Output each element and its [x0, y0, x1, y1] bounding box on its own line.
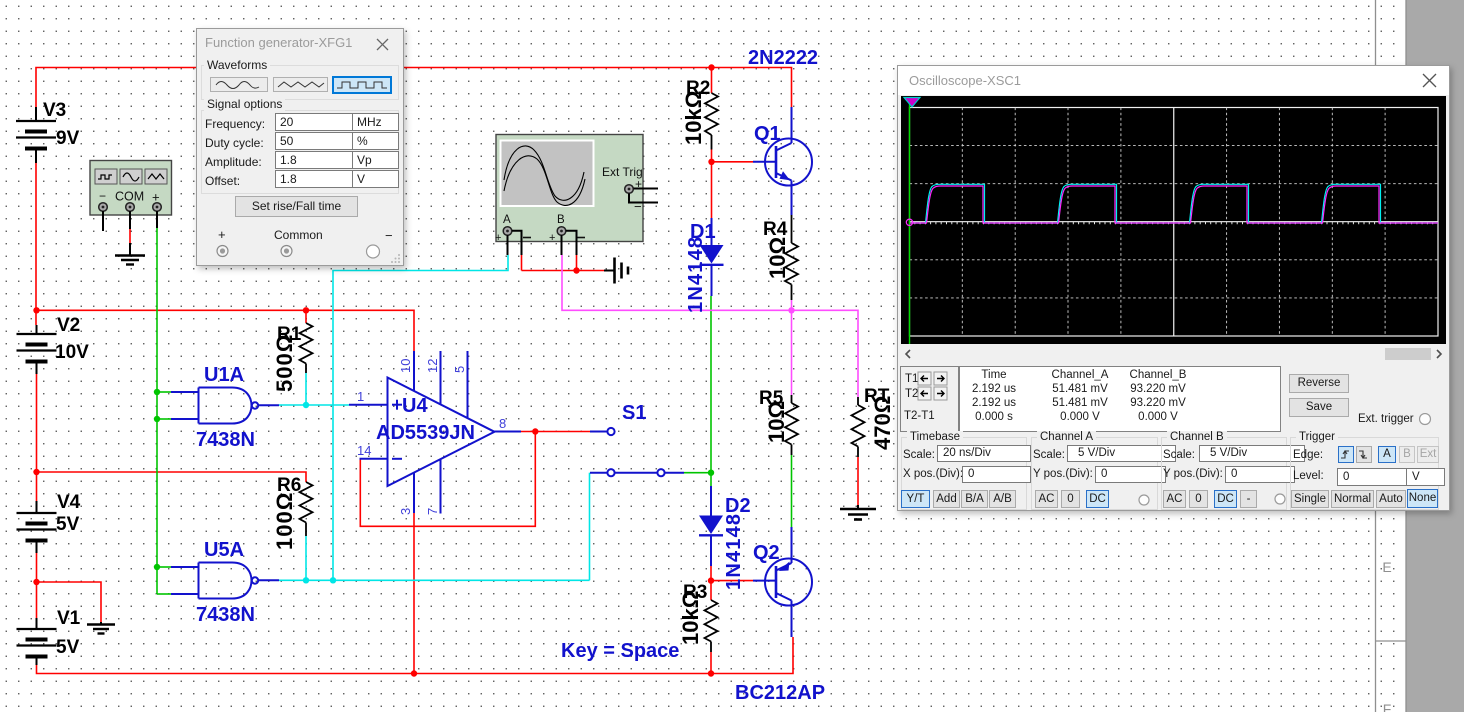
- resistor RT: [852, 397, 865, 457]
- diode D1: [700, 218, 724, 296]
- wire: XFG + output green vertical: [156, 228, 158, 594]
- wire: scope minus terminals to ground: [522, 270, 605, 272]
- cursor readout panel: [900, 366, 959, 432]
- sine trace 2: [504, 156, 585, 206]
- Timebase group: [901, 437, 1027, 510]
- junction: V2/V4: [33, 469, 39, 475]
- minus mark: [392, 458, 402, 460]
- svg-text:500Ω: 500Ω: [272, 334, 297, 392]
- svg-text:470Ω: 470Ω: [870, 396, 895, 450]
- nand gate U1A: [171, 388, 279, 424]
- wire: R2 top lead red: [711, 68, 713, 94]
- junction: scope B- ground: [573, 267, 579, 273]
- junction: R2/D1/Q1 base: [708, 159, 714, 165]
- svg-text:14: 14: [357, 443, 371, 458]
- A minus stub: [512, 231, 522, 255]
- wire: top supply rail from V3 to Q1 collector: [36, 68, 792, 108]
- svg-text:V3: V3: [43, 100, 66, 121]
- svg-text:5V: 5V: [56, 514, 80, 535]
- battery V3: [16, 107, 56, 163]
- triangle icon: [148, 174, 164, 179]
- wire: V1 bottom to bottom rail: [37, 637, 794, 674]
- wire: scope A to U5A output net: [333, 255, 508, 580]
- svg-text:7438N: 7438N: [196, 429, 255, 451]
- wire: base node to D1 anode: [711, 162, 713, 218]
- svg-text:1N4148: 1N4148: [685, 236, 707, 313]
- svg-text:10Ω: 10Ω: [765, 237, 790, 279]
- junction: R4/R5 magenta node: [788, 307, 794, 313]
- svg-text:−: −: [99, 189, 106, 203]
- wire: scope B to R4/R5/RT net: [562, 255, 858, 397]
- svg-text:10kΩ: 10kΩ: [678, 591, 703, 645]
- workspace gray area right of sheet: [1406, 0, 1464, 712]
- wire: base node to R3 top: [710, 581, 712, 600]
- solid center axes: [1173, 108, 1175, 337]
- wire: V3 to V2 left column: [35, 163, 37, 325]
- wire: Q2 base wire: [711, 580, 753, 582]
- wire: V2 rail to U4 pin10: [36, 310, 414, 351]
- svg-text:U5A: U5A: [204, 539, 244, 561]
- XFG COM stub: [129, 211, 131, 229]
- graticule frame: [910, 108, 1439, 337]
- junction: R1 bottom / U1A out: [303, 402, 309, 408]
- cursor axis marker: [906, 219, 912, 225]
- wire: R2 bottom to base node: [711, 150, 713, 163]
- XFG plus stub: [156, 211, 158, 228]
- svg-text:12: 12: [425, 359, 440, 373]
- sheet border column lines: [1376, 0, 1407, 712]
- svg-text:B: B: [557, 214, 565, 226]
- channel B trace (magenta): [909, 186, 1438, 223]
- wire: node to R5 top: [791, 310, 793, 395]
- function generator dialog XFG1: [196, 28, 404, 266]
- svg-text:8: 8: [499, 416, 506, 431]
- ext trig stubs: [629, 189, 658, 203]
- svg-text:AD5539JN: AD5539JN: [376, 422, 475, 444]
- ground: scope minus (rotated): [604, 258, 628, 284]
- transistor Q1 (NPN 2N2222): [753, 107, 812, 215]
- wire: D2 cathode to Q2 base node: [710, 566, 712, 581]
- ground: RT bottom: [840, 505, 876, 520]
- B minus stub: [566, 231, 577, 255]
- svg-text:5V: 5V: [56, 637, 80, 658]
- wire: R6 bottom cyan lead: [305, 536, 307, 580]
- pin1 lead: [349, 404, 388, 406]
- junction: U5A input A: [154, 564, 160, 570]
- switch S1: [590, 428, 684, 476]
- svg-text:7438N: 7438N: [196, 604, 255, 626]
- XSC1 symbol: [495, 135, 658, 256]
- XFG minus stub: [102, 211, 104, 231]
- svg-text:10: 10: [398, 359, 413, 373]
- A plus stub: [507, 235, 509, 255]
- svg-text:7: 7: [425, 508, 440, 515]
- wire: XFG COM red segment: [129, 229, 131, 243]
- pin3 bottom: [413, 473, 415, 514]
- wire: green stub to U1A input A: [157, 391, 171, 393]
- wire: R1 bottom cyan lead: [305, 373, 307, 405]
- battery V4: [17, 501, 57, 553]
- junction: rail/R2: [708, 64, 714, 70]
- wire: scope A- down: [521, 255, 523, 271]
- svg-text:Key = Space: Key = Space: [561, 640, 679, 662]
- svg-text:BC212AP: BC212AP: [735, 682, 825, 704]
- Trigger group: [1290, 437, 1439, 510]
- wire: scope B- down: [576, 255, 578, 271]
- plus mark: [392, 404, 402, 406]
- resistor R5: [785, 395, 798, 455]
- junction: R3 bottom rail: [708, 670, 714, 676]
- junction: A-wire / U5A out: [330, 577, 336, 583]
- pin5 top: [467, 351, 469, 418]
- svg-text:E: E: [1382, 559, 1391, 575]
- junction: R1 top: [303, 307, 309, 313]
- svg-text:10Ω: 10Ω: [764, 401, 789, 443]
- wire: green stub to U5A input A: [157, 566, 171, 568]
- T cursor line (green): [909, 98, 911, 344]
- Channel A group: [1031, 437, 1158, 510]
- wire: U4 pin3 to bottom rail: [413, 513, 415, 674]
- wire: V4 rail to R6 top: [37, 472, 307, 482]
- ground: V1 node: [87, 622, 115, 634]
- scope display: [901, 96, 1446, 344]
- graticule dashed grid: [910, 108, 1439, 337]
- svg-text:A: A: [503, 214, 511, 226]
- pin10 top: [413, 351, 415, 392]
- junction: D1/S1/D2 common: [708, 470, 714, 476]
- svg-text:10V: 10V: [55, 342, 89, 363]
- wire: U5A output row cyan: [279, 579, 590, 581]
- junction: U1A input A: [154, 389, 160, 395]
- pin8 output lead: [495, 431, 522, 433]
- svg-text:U1A: U1A: [204, 364, 244, 386]
- wire: U4 feedback loop: [360, 432, 535, 527]
- sine icon: [123, 173, 139, 181]
- svg-text:3: 3: [398, 508, 413, 515]
- svg-text:5: 5: [452, 366, 467, 373]
- wire: riser to S1 lower throw: [589, 473, 591, 581]
- wire: U4 output to S1: [521, 431, 590, 433]
- readout values: [959, 366, 1281, 432]
- junction: U4 output/feedback: [532, 428, 538, 434]
- square icon: [98, 175, 112, 179]
- pin14 lead: [360, 458, 388, 460]
- svg-text:1N4148: 1N4148: [723, 513, 745, 590]
- svg-text:Q1: Q1: [754, 123, 781, 145]
- svg-text:V2: V2: [57, 315, 80, 336]
- resistor R6: [300, 482, 313, 536]
- junction: pin3 bottom rail: [411, 670, 417, 676]
- svg-text:V4: V4: [57, 492, 81, 513]
- wire: RT bottom to ground: [857, 457, 859, 507]
- pin7 bottom: [440, 459, 442, 514]
- wire: R5 bottom to Q2 emitter: [791, 455, 793, 527]
- diode D2: [699, 486, 723, 566]
- resistor R4: [785, 215, 798, 300]
- svg-text:10kΩ: 10kΩ: [681, 91, 706, 145]
- wire: R3 bottom to bottom rail: [710, 652, 712, 674]
- ground: XFG COM: [115, 243, 145, 265]
- wire: V4 bottom to V1 top: [36, 553, 38, 618]
- wire: S1 to common node: [684, 472, 711, 474]
- resistor R1: [300, 310, 313, 373]
- wire: green stub to U5A input B: [157, 593, 171, 595]
- resistor R2: [705, 93, 718, 150]
- junction: R6 bottom / U5A out: [303, 577, 309, 583]
- wire: V4/V1 node to ground jog: [37, 582, 102, 622]
- battery V1: [17, 618, 57, 665]
- wire: R4 bottom magenta lead: [791, 300, 793, 310]
- svg-text:2N2222: 2N2222: [748, 47, 818, 69]
- svg-text:COM: COM: [115, 190, 144, 204]
- svg-text:9V: 9V: [56, 128, 80, 149]
- axis minor ticks: [915, 222, 1433, 225]
- svg-text:+: +: [549, 232, 555, 244]
- svg-text:100Ω: 100Ω: [272, 492, 297, 550]
- battery V2: [17, 325, 57, 374]
- svg-text:F: F: [1383, 701, 1392, 712]
- pin12 top: [440, 351, 442, 405]
- svg-text:U4: U4: [402, 395, 428, 417]
- XFG1 symbol: [90, 161, 172, 232]
- wire: Q1 base wire: [712, 161, 754, 163]
- wire: D1 cathode to S1 common node: [710, 296, 712, 486]
- svg-text:S1: S1: [622, 402, 646, 424]
- sine trace 1: [504, 146, 584, 200]
- resistor R3: [705, 600, 718, 652]
- svg-text:V1: V1: [57, 608, 81, 629]
- wire: U1A output row cyan: [279, 404, 349, 406]
- svg-text:+: +: [495, 232, 501, 244]
- svg-text:−: −: [634, 199, 642, 214]
- Channel B group: [1161, 437, 1287, 510]
- transistor Q2 (PNP BC212AP): [753, 527, 812, 637]
- channel A trace (cyan): [909, 184, 1438, 223]
- oscilloscope window XSC1: [897, 65, 1450, 511]
- junction: V2 top: [33, 307, 39, 313]
- junction: U1A input B: [154, 416, 160, 422]
- junction: D2/R3/Q2 base: [708, 577, 714, 583]
- op-amp U4: [349, 351, 521, 514]
- wire: green stub to U1A input B: [157, 418, 171, 420]
- junction: V4/V1/ground: [33, 579, 39, 585]
- svg-text:R4: R4: [763, 219, 788, 240]
- wire: V2 bottom to V4 rail: [36, 374, 38, 501]
- nand gate U5A: [171, 563, 279, 599]
- B plus stub: [561, 235, 563, 255]
- svg-text:Q2: Q2: [753, 542, 780, 564]
- cursor flag: [904, 98, 920, 108]
- horizontal scrollbar: [901, 347, 1446, 361]
- svg-text:1: 1: [357, 389, 364, 404]
